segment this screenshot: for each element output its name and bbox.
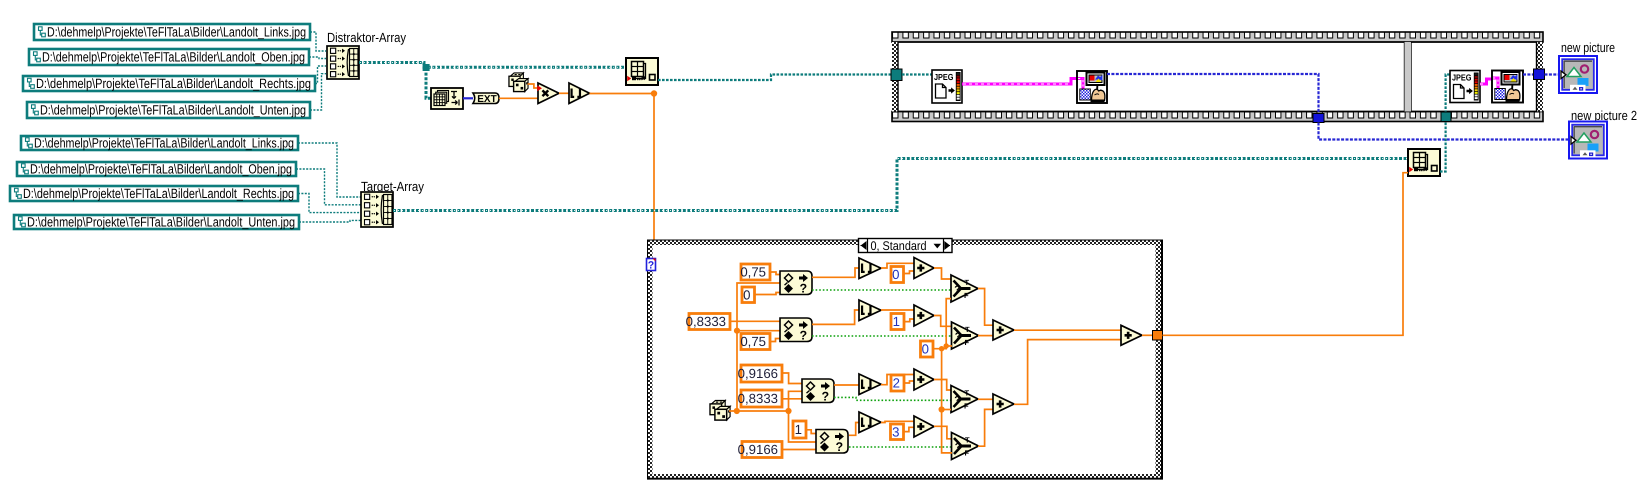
tunnel picture (sequence frame 2 output) [1534,69,1545,80]
wire dbl branch -> in-range 4 mid [789,411,817,442]
add function B [993,394,1014,414]
path constant Landolt_Links.jpg (target) [21,136,298,151]
svg-text:F: F [964,402,969,411]
wire path tunnel -> Read JPEG 1 [902,73,932,75]
wire path Index Array 1 -> sequence frame 1 [658,75,892,81]
wire dbl trunk -> in-range 2 mid [737,330,780,332]
round toward -infinity 1 [859,258,881,279]
wire dbl floor 4 -> increment 4 [881,421,914,422]
picture indicator new picture [1559,56,1597,93]
wire dbl 0,75 -> in-range 2 [770,339,780,342]
wire path tunnel2 -> Read JPEG 2 [1446,75,1450,122]
round toward -infinity 4 [859,412,881,433]
add function row1 [914,258,934,279]
wire dbl increment 3 -> select 3 [934,380,951,391]
svg-text:EXT: EXT [477,94,496,105]
junction dbl select 0 a [939,346,944,351]
subVI Read JPEG File 1 [932,70,962,103]
wire path Links->Build Array 2 [298,143,361,197]
svg-text:0,9166: 0,9166 [738,366,778,381]
path constant Landolt_Unten.jpg (target) [14,215,299,230]
multiply function [538,83,559,104]
picture indicator new picture 2 [1569,122,1607,159]
svg-text:0,8333: 0,8333 [738,391,778,406]
svg-text:?: ? [822,390,830,404]
svg-text:?: ? [954,285,960,296]
in range and coerce 1 [780,271,812,296]
svg-text:D:\dehmelp\Projekte\TeFlTaLa\B: D:\dehmelp\Projekte\TeFlTaLa\Bilder\Land… [36,76,311,91]
to extended precision conversion EXT [473,93,499,105]
numeric constant 1 (row4) [793,421,806,438]
wire dbl 0,9166 -> in-range 3 [782,373,802,384]
wire dbl 0,9166 -> in-range 4 [782,449,816,451]
numeric constant 3 (increment row4) [891,424,904,440]
wire path Rechts->Build Array 1 [315,66,326,84]
wire image-cluster Read JPEG 2 -> Draw Pixmap 2 [1480,79,1493,84]
svg-text:T: T [965,278,970,287]
flat sequence structure frame border [892,32,1543,122]
in range and coerce 4 [816,430,848,455]
subVI Draw Flattened Pixmap 1 [1077,71,1107,103]
add function A [993,320,1014,340]
wire dbl final add -> tunnel [1142,334,1153,336]
junction dbl branch right [785,408,791,414]
wire dbl select 2 -> add A [978,335,993,337]
svg-text:0,9166: 0,9166 [738,442,778,457]
select function 4 [952,433,979,460]
numeric constant 1 (increment row2) [891,314,904,330]
svg-text:JPEG: JPEG [1452,73,1472,83]
junction dbl dice [734,408,740,414]
tunnel path (sequence frame 1 input) [891,69,902,81]
svg-text:?: ? [955,442,961,453]
numeric constant 0 (select s-input) [921,341,934,357]
junction path-array [423,64,430,71]
wire dbl tunnel -> Index Array 2 [1163,173,1409,336]
wire path Oben->Build Array 1 [309,57,326,59]
wire bool in-range 2 -> select 2 [812,335,952,337]
svg-text:Distraktor-Array: Distraktor-Array [327,30,406,45]
array size function [431,88,463,109]
svg-text:D:\dehmelp\Projekte\TeFlTaLa\B: D:\dehmelp\Projekte\TeFlTaLa\Bilder\Land… [47,25,306,40]
wire dbl 1 -> in-range 4 [807,430,817,434]
svg-text:0: 0 [743,287,750,302]
wire path-array branch -> Array Size [426,68,431,98]
wire bool in-range 1 -> select 1 [812,289,951,291]
in range and coerce 3 [802,379,834,404]
svg-text:F: F [965,338,970,347]
wire dbl dice -> multiply [528,84,538,88]
svg-text:JPEG: JPEG [934,72,954,82]
path constant Landolt_Oben.jpg (distractor) [29,49,309,65]
wire dbl 2 -> increment 3 [905,381,915,383]
random number dice 1 [509,73,528,92]
path constant Landolt_Oben.jpg (target) [17,162,296,177]
numeric constant 0 (increment row1) [891,267,904,283]
wire path Oben->Build Array 2 [296,169,361,205]
path constant Landolt_Links.jpg (distractor) [34,24,310,40]
label Distraktor-Array [327,30,406,45]
path constant Landolt_Unten.jpg (distractor) [27,102,310,118]
wire path-array Build Array 2 -> Index Array 2 [393,159,1408,211]
svg-text:?: ? [648,259,654,271]
svg-text:0,75: 0,75 [740,265,766,280]
wire picture tunnel -> new picture 2 [1319,123,1573,140]
wire dbl 0,75 -> in-range 1 [770,272,780,275]
wire dbl dice 2 -> trunk [729,410,789,412]
wire bool in-range 3 -> select 3 [834,397,951,400]
wire dbl random vertical trunk [737,283,780,411]
wire picture Draw Pixmap 1 -> tunnel [1107,74,1319,114]
wire dbl 1 -> increment 2 [905,319,915,322]
junction dbl [651,90,657,96]
label Target-Array [361,179,424,194]
wire dbl select 1 -> add A [978,289,993,326]
numeric constant 0,9166 (row4) [738,442,782,458]
tunnel dbl (case output) [1153,331,1163,341]
wire dbl branch -> in-range 3 mid [789,391,803,411]
wire path Unten->Build Array 2 [299,220,361,222]
svg-text:D:\dehmelp\Projekte\TeFlTaLa\B: D:\dehmelp\Projekte\TeFlTaLa\Bilder\Land… [42,50,305,65]
build array Target-Array [361,192,393,227]
svg-text:D:\dehmelp\Projekte\TeFlTaLa\B: D:\dehmelp\Projekte\TeFlTaLa\Bilder\Land… [23,186,294,201]
wire dbl select 4 -> add B [978,409,993,446]
wire dbl EXT -> multiply [499,97,538,99]
svg-text:D:\dehmelp\Projekte\TeFlTaLa\B: D:\dehmelp\Projekte\TeFlTaLa\Bilder\Land… [27,215,295,230]
coercion dot multiply [537,85,542,91]
tunnel path (sequence frame 2 input) [1441,112,1451,122]
svg-text:D:\dehmelp\Projekte\TeFlTaLa\B: D:\dehmelp\Projekte\TeFlTaLa\Bilder\Land… [34,136,294,151]
wire dbl floor 3 -> increment 3 [881,375,914,385]
index array function 2 [1408,149,1440,176]
round toward -infinity 3 [859,374,881,395]
add function row4 [914,416,934,437]
wire picture tunnel -> new picture [1545,73,1563,75]
label new picture 2 [1571,108,1637,123]
wire dbl 0 -> increment 1 [904,271,914,274]
junction dbl select 0 c [939,406,945,412]
numeric constant 0 (row1) [742,287,755,303]
label new picture [1561,40,1615,55]
svg-text:3: 3 [892,424,899,439]
wire dbl in-range 4 -> floor 4 [849,423,859,436]
numeric constant 0,75 (row1) [740,264,770,280]
svg-text:new picture: new picture [1561,40,1615,55]
wire dbl increment 1 -> select 1 [934,268,951,279]
svg-text:?: ? [800,282,808,296]
wire dbl in-range 2 -> floor 2 [812,310,859,324]
svg-text:D:\dehmelp\Projekte\TeFlTaLa\B: D:\dehmelp\Projekte\TeFlTaLa\Bilder\Land… [30,162,292,177]
numeric constant 2 (increment row3) [891,375,904,391]
svg-text:0, Standard: 0, Standard [871,239,927,253]
wire dbl in-range 1 -> floor 1 [812,268,859,277]
wire dbl floor 1 -> increment 1 [881,263,914,268]
wire dbl add A -> final add [1014,329,1121,331]
wire path Index Array 2 -> tunnel2 [1440,122,1446,172]
svg-text:?: ? [954,395,960,406]
svg-text:1: 1 [893,314,900,329]
svg-text:0: 0 [892,267,899,282]
random number dice 2 [710,400,730,420]
path constant Landolt_Rechts.jpg (distractor) [23,76,315,91]
numeric constant 0,9166 (row3) [738,365,782,382]
add function row2 [914,305,934,326]
junction dbl select 0 b [944,343,949,348]
numeric constant 0,75 (row2) [740,334,770,350]
wire dbl increment 2 -> select 2 [934,316,952,327]
wire dbl add B -> final add [1014,340,1121,405]
in range and coerce 2 [780,318,812,343]
index array function 1 [626,58,658,85]
wire path Links->Build Array 1 [310,32,326,51]
svg-text:T: T [965,325,970,334]
svg-text:T: T [965,436,970,445]
build array Distraktor-Array [327,46,359,79]
wire dbl 0,8333 -> in-range 2 top [730,320,780,322]
svg-text:0,75: 0,75 [740,334,766,349]
round toward -infinity function [569,83,590,104]
svg-text:0,8333: 0,8333 [686,314,726,329]
numeric constant 0,8333 (row3) [738,390,782,407]
junction dbl trunk [734,328,740,334]
select function 2 [952,322,979,349]
wire path Rechts->Build Array 2 [298,194,361,213]
wire image-cluster Read JPEG 1 -> Draw Pixmap 1 [962,79,1078,85]
case structure border [647,240,1163,480]
wire path-array Build Array 1 -> Index Array 1 [359,63,626,68]
numeric constant 0,8333 (row1/2) [686,314,730,330]
wire dbl 3 -> increment 4 [904,427,915,431]
svg-text:1: 1 [795,422,802,437]
wire picture Draw Pixmap 2 -> tunnel [1523,73,1534,75]
svg-text:?: ? [800,329,808,343]
svg-text:2: 2 [893,376,900,391]
svg-text:?: ? [836,440,844,454]
add function row3 [914,369,934,390]
case selector terminal ? [647,259,656,272]
svg-text:?: ? [955,332,961,343]
subVI Read JPEG File 2 [1450,71,1480,103]
wire dbl multiply -> floor [559,92,569,94]
wire dbl in-range 3 -> floor 3 [834,384,859,386]
path constant Landolt_Rechts.jpg (target) [10,186,298,201]
wire dbl increment 4 -> select 4 [934,426,952,439]
round toward -infinity 2 [859,300,881,321]
svg-text:F: F [964,291,969,300]
wire dbl 0 -> in-range 1 [755,293,781,295]
wire i32 Array Size -> To Extended [463,97,473,99]
tunnel picture (sequence frame 1 output) [1313,114,1324,123]
wire dbl select 3 -> add B [978,398,993,400]
wire dbl 0 -> selects [933,299,952,453]
wire dbl floor 2 -> increment 2 [881,309,914,311]
svg-text:0: 0 [922,342,929,357]
select function 3 [951,386,978,413]
wire bool in-range 4 -> select 4 [849,446,952,448]
svg-text:T: T [965,389,970,398]
add function final [1121,325,1142,345]
svg-text:D:\dehmelp\Projekte\TeFlTaLa\B: D:\dehmelp\Projekte\TeFlTaLa\Bilder\Land… [40,103,306,118]
select function 1 [951,275,978,302]
wire dbl floor -> junction/case selector [590,94,655,240]
case selector label "0, Standard" [859,239,953,254]
wire dbl 0,8333 -> in-range 3 [782,398,802,400]
wire path Unten->Build Array 1 [310,74,326,110]
svg-text:F: F [965,449,970,458]
subVI Draw Flattened Pixmap 2 [1492,71,1523,103]
